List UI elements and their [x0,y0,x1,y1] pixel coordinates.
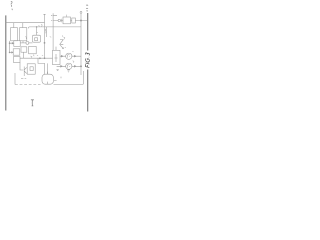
dashed enclosure left [14,73,16,85]
figure label FIG. 3 [86,53,90,68]
wire [20,42,26,44]
wire top rail [6,22,45,24]
wire [10,43,14,44]
ground [67,70,70,72]
ground [56,70,58,71]
terminal T1 [52,13,54,50]
wire [45,27,47,37]
node G [36,26,37,27]
wire riser [43,14,45,58]
dashed enclosure top/right [28,27,81,29]
enclosure right edge [82,71,83,85]
node D [9,52,10,53]
handwritten numeral 7 [31,100,34,106]
label 10 [36,26,40,33]
node E [44,58,45,59]
transistor Q1 [66,53,72,59]
block 32 [21,47,27,52]
dashed enclosure bottom [15,84,41,86]
wire [10,52,14,53]
label phi [21,77,26,79]
handwritten sheet numeral [86,5,88,12]
handwritten page mark [11,2,13,11]
wire [61,19,63,22]
wire [72,55,81,57]
wire bend [38,58,45,74]
terminal T2 [51,20,58,22]
block 14 [33,35,41,42]
node F [44,42,45,43]
wire [29,42,33,44]
label 18 [30,56,32,58]
wire [14,41,23,43]
wire [72,66,81,68]
label 24 [33,55,34,57]
wire bus [9,41,11,53]
label 20 [63,37,64,39]
block 24 [72,18,76,23]
node B [80,66,81,67]
label 28 [42,54,43,57]
block 34 [29,46,37,53]
label 26 [37,54,38,57]
block 36 [53,50,61,64]
oscillator M1 [42,74,53,84]
wire [23,52,25,58]
label 42 [73,61,74,63]
wire main horizontal [20,57,53,59]
label 8 [45,29,46,33]
wire [46,72,48,85]
wire [57,66,66,68]
transistor Q4 [24,67,27,77]
wire [14,23,23,28]
label 12 [25,37,26,39]
pin tick [60,77,62,79]
transistor Q2 [66,63,72,69]
block 26 [14,41,20,47]
node 16 [26,41,29,44]
wire bend inner [47,63,49,74]
label 14 [41,24,42,26]
pin tick [66,15,68,17]
block 30 [13,57,20,63]
wire [36,27,38,35]
node C [9,43,10,44]
node J1 [80,20,81,21]
transistor Q3 [60,40,64,45]
block 12 [20,28,27,41]
node A [58,19,61,22]
wire [20,62,23,70]
label 40 [72,50,73,53]
block 10 [11,28,18,41]
wire [71,20,88,22]
wire [60,55,66,57]
block 22 [63,17,71,24]
block 38 [27,64,35,74]
label 2 [50,36,51,39]
arrow junction [39,57,41,59]
block 28 [13,49,20,55]
wire drop to bus [80,11,82,13]
